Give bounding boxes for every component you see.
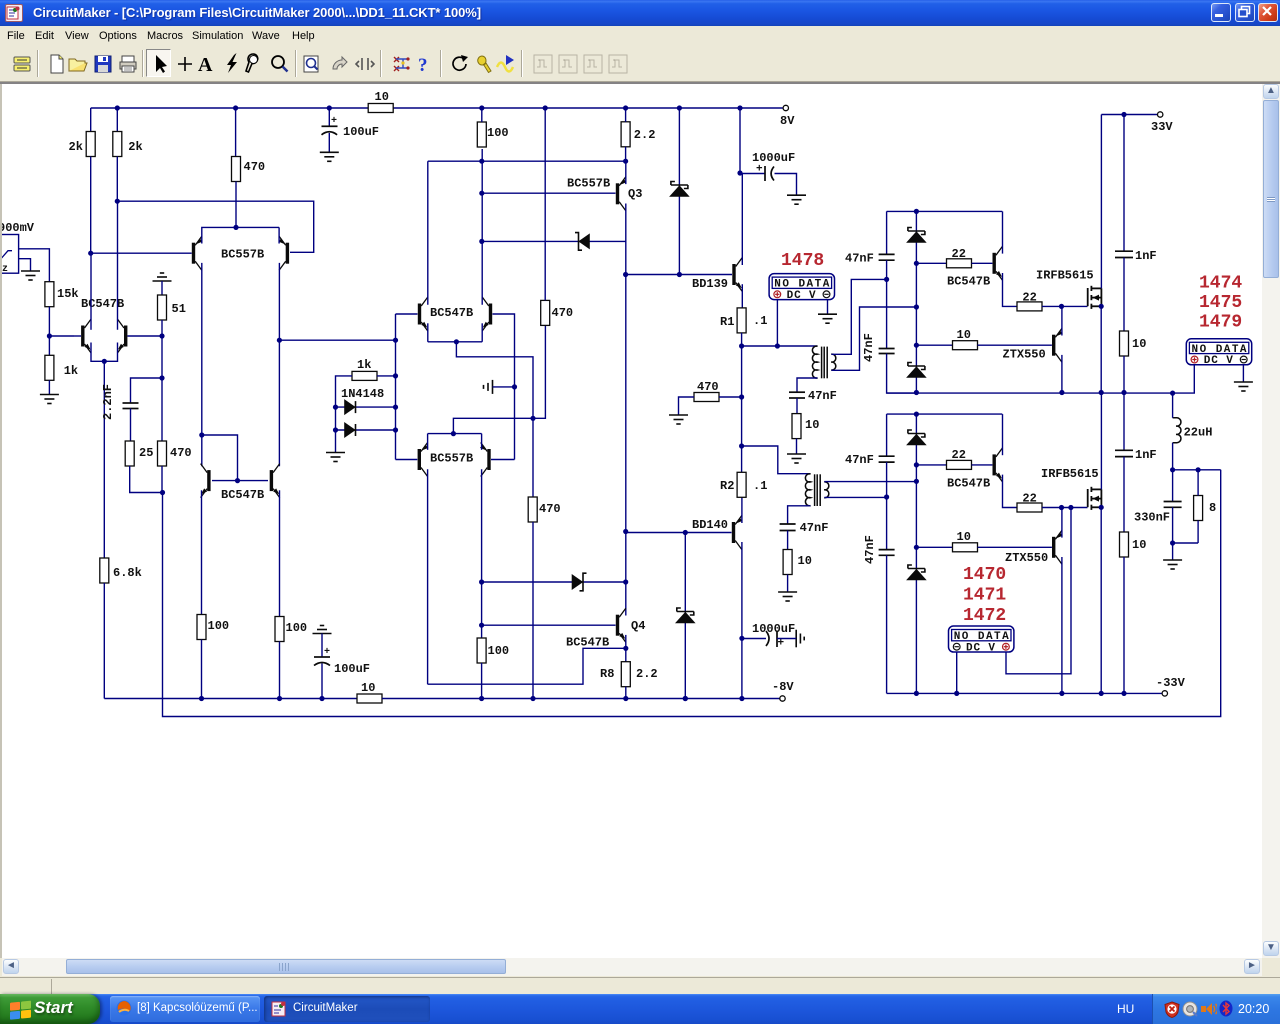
junction base tap [235,478,240,483]
wire Q2 base to 51 node [128,335,163,337]
wire feedback rail [163,470,1221,717]
wire C13 to rail33 [886,555,888,693]
wire C9 to out rail [887,354,917,394]
transistor Q7 BC547B [418,297,428,331]
wire R9 to ground [48,380,50,394]
wire snubber upper top [1123,115,1125,252]
junction Q2 collector node [115,199,120,204]
vertical scrollbar [1262,84,1280,958]
wire R18 top [625,108,627,122]
wire Q13 emitter [1003,273,1018,306]
transistor Q1 BC547B [81,319,91,353]
transistor BD140 [732,516,743,550]
junction R15 y161 [479,159,484,164]
zener D8 [908,363,925,378]
junction xfmr1 primary node [739,343,744,348]
wire Q7 emitter down [427,323,429,342]
junction Q1 collector node [88,251,93,256]
junction rail D5 [677,105,682,110]
taskbar [0,994,1280,1024]
label C9 value 47nF [862,333,876,362]
svg-text:R2: R2 [720,479,734,493]
meter M3 NO DATA [949,626,1014,654]
wire BD139 base [626,274,732,276]
capacitor C2 2.2nF [123,403,139,409]
wire Q9 emitter up [427,434,429,450]
svg-text:BC557B: BC557B [430,452,473,466]
terminal 8V [783,105,788,110]
resistor R28 22 [1017,302,1042,311]
transistor BD139 [732,258,742,292]
svg-text:DC V: DC V [787,290,816,302]
resistor R14 1k [352,371,377,380]
wire Q15 emitter [1003,475,1018,508]
junction midlow emitters [451,431,456,436]
junction out rail snubber [1121,390,1126,395]
svg-text:1k: 1k [64,364,78,378]
junction 1000uF C4 node [739,636,744,641]
wire R2 bottom to T2 [741,496,743,498]
wire R31 to Q15 base [972,464,993,466]
resistor R4 2k [113,132,122,157]
junction rail R16 [543,105,548,110]
svg-text:8V: 8V [780,114,795,128]
wire Q14 emitter up [1061,306,1063,335]
junction rail R18 [623,105,628,110]
svg-text:BC547B: BC547B [947,477,990,491]
svg-text:.1: .1 [753,479,767,493]
svg-text:100: 100 [208,619,230,633]
capacitor C10 1nF [1115,251,1133,257]
toolbar [0,46,1280,82]
ground at source [21,271,40,280]
svg-text:51: 51 [172,302,186,316]
wire Q11 emitter down [201,490,203,615]
wire Q3 emitter [625,161,627,184]
wire T2 secondary top [824,481,916,483]
resistor R5 470 [232,157,241,182]
transistor Q14 ZTX550 [1052,328,1063,362]
svg-text:2k: 2k [128,140,142,154]
junction D6 top [683,530,688,535]
wire gnd to C5 [321,634,323,658]
junction rail 100 left [199,696,204,701]
wire Q8 emitter down [481,323,483,342]
wire R7 to base node [48,307,50,361]
wire 10 R27 feed [916,344,952,346]
resistor R11 51 [158,295,167,320]
junction meter V1 tap [775,343,780,348]
wire Q2 emitter to tail [104,343,117,362]
svg-text:R8: R8 [600,667,614,681]
wire BD139 emitter down [741,284,743,308]
wire 22 R31 feed [916,464,946,466]
transistor Q8 BC547B [482,297,492,331]
svg-text:8: 8 [1209,501,1216,515]
junction rail R8 [623,696,628,701]
transistor Q2 BC547B [117,319,127,353]
junction out rail ZTX [1059,390,1064,395]
junction ladder top [393,338,398,343]
junction ZTX base tap upper [914,343,919,348]
svg-text:100: 100 [487,126,509,140]
transistor Q3 BC557B [616,177,627,211]
capacitor C8 47nF [879,254,895,260]
capacitor C7 47nF [780,524,796,531]
wire C4 link [742,638,766,640]
resistor R23 100 [275,617,284,642]
svg-text:33V: 33V [1151,120,1173,134]
svg-text:6.8k: 6.8k [113,566,142,580]
junction C8 T1 sec [884,277,889,282]
wire Q6 collector down [278,263,280,466]
wire R5 bottom lead [235,182,237,228]
junction gnd mid [512,384,517,389]
junction rail 2k R4 [115,105,120,110]
junction out rail left [914,390,919,395]
junction 470 gnd node [739,394,744,399]
wire C12 to sec2 [886,462,888,549]
wire C8 to sec node [886,260,888,348]
svg-text:1472: 1472 [963,606,1006,626]
svg-text:ZTX550: ZTX550 [1005,551,1048,565]
junction M2 source [1099,505,1104,510]
resistor R26 22 [947,259,972,268]
svg-text:+: + [756,164,763,176]
junction mid emitters [454,339,459,344]
svg-text:2.2: 2.2 [636,667,658,681]
svg-text:IRFB5615: IRFB5615 [1036,269,1094,283]
ground below R24 [787,454,806,463]
junction filter node [1170,467,1175,472]
wire R28 to gate [1042,305,1088,307]
wire cap column lower [886,414,888,456]
svg-text:10: 10 [1132,538,1146,552]
capacitor C14 1nF [1115,450,1133,456]
junction M1 source [1099,304,1104,309]
wire R12 to fb node [130,466,163,493]
wire R8 to rail [625,687,627,699]
svg-text:+: + [331,116,337,127]
svg-text:47nF: 47nF [862,333,876,362]
svg-text:47nF: 47nF [845,453,874,467]
wire Q7 base [396,313,418,315]
wire R19 right [719,396,742,398]
wire midlow emitters [428,433,482,435]
resistor R8 2.2 [621,662,630,687]
wire 10 R32 feed [916,546,952,548]
wire zener column lower [915,414,917,693]
junction D5 base wire [677,272,682,277]
diode D1 1N4148 [345,401,356,414]
junction diode lower join [623,579,628,584]
junction rail R17 [479,696,484,701]
wire -8V rail right part [382,698,780,700]
svg-text:15k: 15k [57,287,79,301]
wire M2 minus gnd [1242,365,1244,382]
title bar [0,0,1280,26]
junction gate node lower [1059,505,1064,510]
resistor R24 10 [792,414,801,439]
wire M1 drain up [1100,115,1102,289]
wire T2 primary top [742,446,811,474]
wire chain to BC557 emitters [453,418,533,433]
label C13 value 47nF [863,535,877,564]
wire R26 to Q13 base [972,262,993,264]
svg-text:330nF: 330nF [1134,511,1170,525]
junction Q3 emitter node [623,159,628,164]
ground below M1 [818,314,837,323]
wire +8V top rail [91,107,783,109]
svg-text:IRFB5615: IRFB5615 [1041,467,1099,481]
resistor R29 10 [1120,331,1129,356]
resistor R10 6.8k [100,558,109,583]
junction 8V cap node [737,105,742,110]
svg-text:100: 100 [488,644,510,658]
capacitor C4 1000uF [766,631,777,648]
resistor R9 1k [45,355,54,380]
wire C1 bottom lead [328,133,330,152]
wire L1 top [1172,393,1174,418]
junction rail D6 [683,696,688,701]
junction rail C5 [319,696,324,701]
svg-text:10: 10 [957,328,971,342]
label C2 value 2.2nF [101,384,115,420]
wire base Q1 [49,335,74,337]
inductor L1 22uH [1173,418,1181,443]
transformer T2 [805,474,828,506]
wire R29 to rail [1123,356,1125,393]
svg-text:10: 10 [1132,337,1146,351]
junction 8ohm top [1196,467,1201,472]
wire Q5 base [91,252,192,254]
svg-text:100uF: 100uF [334,662,370,676]
wire C11 bottom [1172,507,1174,559]
terminal -33V [1162,691,1167,696]
wire Q9 collector down [427,469,429,684]
capacitor C13 47nF [879,550,895,556]
wire R4 bottom to node [116,157,118,202]
junction rail 470 R5 [233,105,238,110]
capacitor C3 1000uF [765,166,774,181]
wire Q4 emitter down [625,635,627,662]
transistor Q6 BC557B [278,236,289,270]
svg-text:1475: 1475 [1199,293,1242,313]
wire upper rail [887,210,1003,212]
resistor R18 2.2 [621,122,630,147]
junction rail BD140 [739,696,744,701]
ground below diode chain [326,453,345,462]
svg-text:1471: 1471 [963,586,1006,606]
svg-text:10: 10 [375,90,389,104]
resistor R19 470 [694,393,719,402]
wire C6 to R24 [796,398,798,414]
svg-text:47nF: 47nF [845,252,874,266]
wire R30 bottom link [1173,542,1199,544]
zener D5 [671,182,688,197]
junction drive upper [914,261,919,266]
svg-text:470: 470 [170,446,192,460]
svg-text:DC V: DC V [966,642,995,654]
zener D6 [677,608,694,623]
wire C3 to ground [775,174,797,196]
resistor R6 10 on top rail [368,104,393,113]
wire Q3 collector [625,204,627,613]
wire ladder feed [279,339,395,341]
junction rail33 M3 [954,691,959,696]
wire T1 secondary top [831,279,886,354]
wire R34 to rail [1123,557,1125,693]
junction xfmr2 node [739,443,744,448]
wire D1 net [336,406,396,408]
wire Q4 collector up [625,612,627,616]
wire R30 bottom lead [1197,521,1199,544]
junction rail 470 R21 [530,696,535,701]
svg-text:47nF: 47nF [863,535,877,564]
wire BD140 collector down [741,542,743,699]
zener D7 [908,228,925,243]
ground right of C4 rotated [796,630,804,648]
wire BD140 base [626,532,732,534]
wire R11 chain [161,320,163,441]
junction ladder D2 [393,427,398,432]
wire lower rail [887,413,1003,415]
wire Q12 emitter down [279,490,281,617]
svg-text:1478: 1478 [781,251,824,271]
wire R33 to gate [1042,507,1088,509]
capacitor C1 100uF [322,126,338,135]
svg-text:25: 25 [139,446,153,460]
wire source minus stub [18,259,31,271]
wire R16 top to rail [544,108,546,300]
wire R32 to Q16 base [978,546,1052,548]
junction rail 100 right [277,696,282,701]
wire Q10 base right [491,459,515,461]
svg-text:BC557B: BC557B [567,177,610,191]
wire R27 to Q14 base [978,344,1052,346]
diode D4 zener [573,573,587,591]
ground above C5 [313,626,332,634]
diode D3 zener [575,233,589,251]
svg-text:1470: 1470 [963,565,1006,585]
svg-text:2.2nF: 2.2nF [101,384,115,420]
wire lower diode net [482,581,626,583]
zener D9 [908,430,925,445]
wire 2k R4 top lead [116,108,118,132]
resistor R30 8 [1194,496,1203,521]
svg-text:A: A [198,54,213,75]
wire 33V link [1101,114,1157,116]
wire BD139 collector up [741,173,743,265]
ground mid rotated [484,380,493,394]
svg-text:47nF: 47nF [808,389,837,403]
wire cap column upper [886,211,888,254]
junction ZTX base tap lower [914,545,919,550]
svg-text:ZTX550: ZTX550 [1003,348,1046,362]
ground below C1 [320,152,339,161]
wire C10 to R29 [1123,258,1125,332]
junction upper rail zener [914,209,919,214]
wire to C2 2.2nF [131,378,163,403]
transistor Q10 BC557B [480,443,491,477]
junction feedback node [160,490,165,495]
junction emitter chain 418 [530,416,535,421]
svg-text:22uH: 22uH [1184,426,1213,440]
svg-text:100: 100 [286,621,308,635]
svg-text:BC557B: BC557B [221,248,264,262]
meter M1 NO DATA [769,274,834,302]
wire y161 link [428,160,626,162]
wire M2 source down [1100,507,1102,693]
wire Q8 base right [493,314,515,460]
wire 8V node down [739,108,741,173]
wire gnd to R11 [161,281,163,295]
capacitor C9 47nF [879,349,895,354]
wire R25 to ground [787,575,789,592]
wire 470 R5 top lead [235,108,237,157]
wire Q16 emitter up [1061,508,1063,538]
wire R22 to rail [201,640,203,699]
wire Q15 collector [1002,414,1004,455]
junction rail33 zener [914,691,919,696]
svg-text:1479: 1479 [1199,313,1242,333]
junction D2 anode [333,427,338,432]
ground below M2 [1234,382,1253,391]
junction T1 sec bot [914,304,919,309]
ground below R25 [778,592,797,601]
junction meter tap lower [1068,505,1073,510]
ground below filter [1163,560,1182,569]
svg-text:Q3: Q3 [628,187,642,201]
svg-text:10: 10 [957,530,971,544]
junction emitter tail [102,359,107,364]
wire Q1 base stub [74,335,81,337]
junction out rail M1 [1099,390,1104,395]
junction ladder D1 [393,405,398,410]
wire R30 top lead [1197,470,1199,496]
wire Q10 emitter up [481,434,483,450]
wire T2 secondary bottom [824,496,886,498]
wire Q4 base [482,624,616,626]
wire R17 to rail [481,663,483,699]
mosfet M1 IRFB5615 [1088,286,1102,309]
svg-text:2k: 2k [69,140,83,154]
svg-text:+: + [778,638,785,650]
wire mid emitters [428,341,482,343]
terminal -8V [780,696,785,701]
wire T1 secondary bottom [831,307,916,370]
resistor R22 100 [197,615,206,640]
ground below R9 [40,395,59,404]
svg-text:470: 470 [552,306,574,320]
junction diode lower node [479,579,484,584]
svg-text:?: ? [418,55,428,75]
junction rail33 snubber [1121,691,1126,696]
junction rail 100uF C1 [327,105,332,110]
capacitor C11 330nF [1164,502,1182,508]
wire Q8 collector up [481,149,483,305]
svg-text:1000uF: 1000uF [752,622,795,636]
svg-text:R1: R1 [720,315,734,329]
wire source to 15k [18,249,49,282]
svg-text:BD139: BD139 [692,277,728,291]
wire gnd mid to node [493,386,515,388]
voltage source V1 900mV [0,235,19,274]
wire M3 right lead [1006,508,1071,674]
transformer T1 [812,346,835,378]
resistor R2 .1 [737,472,746,497]
meter M2 NO DATA [1186,339,1251,367]
